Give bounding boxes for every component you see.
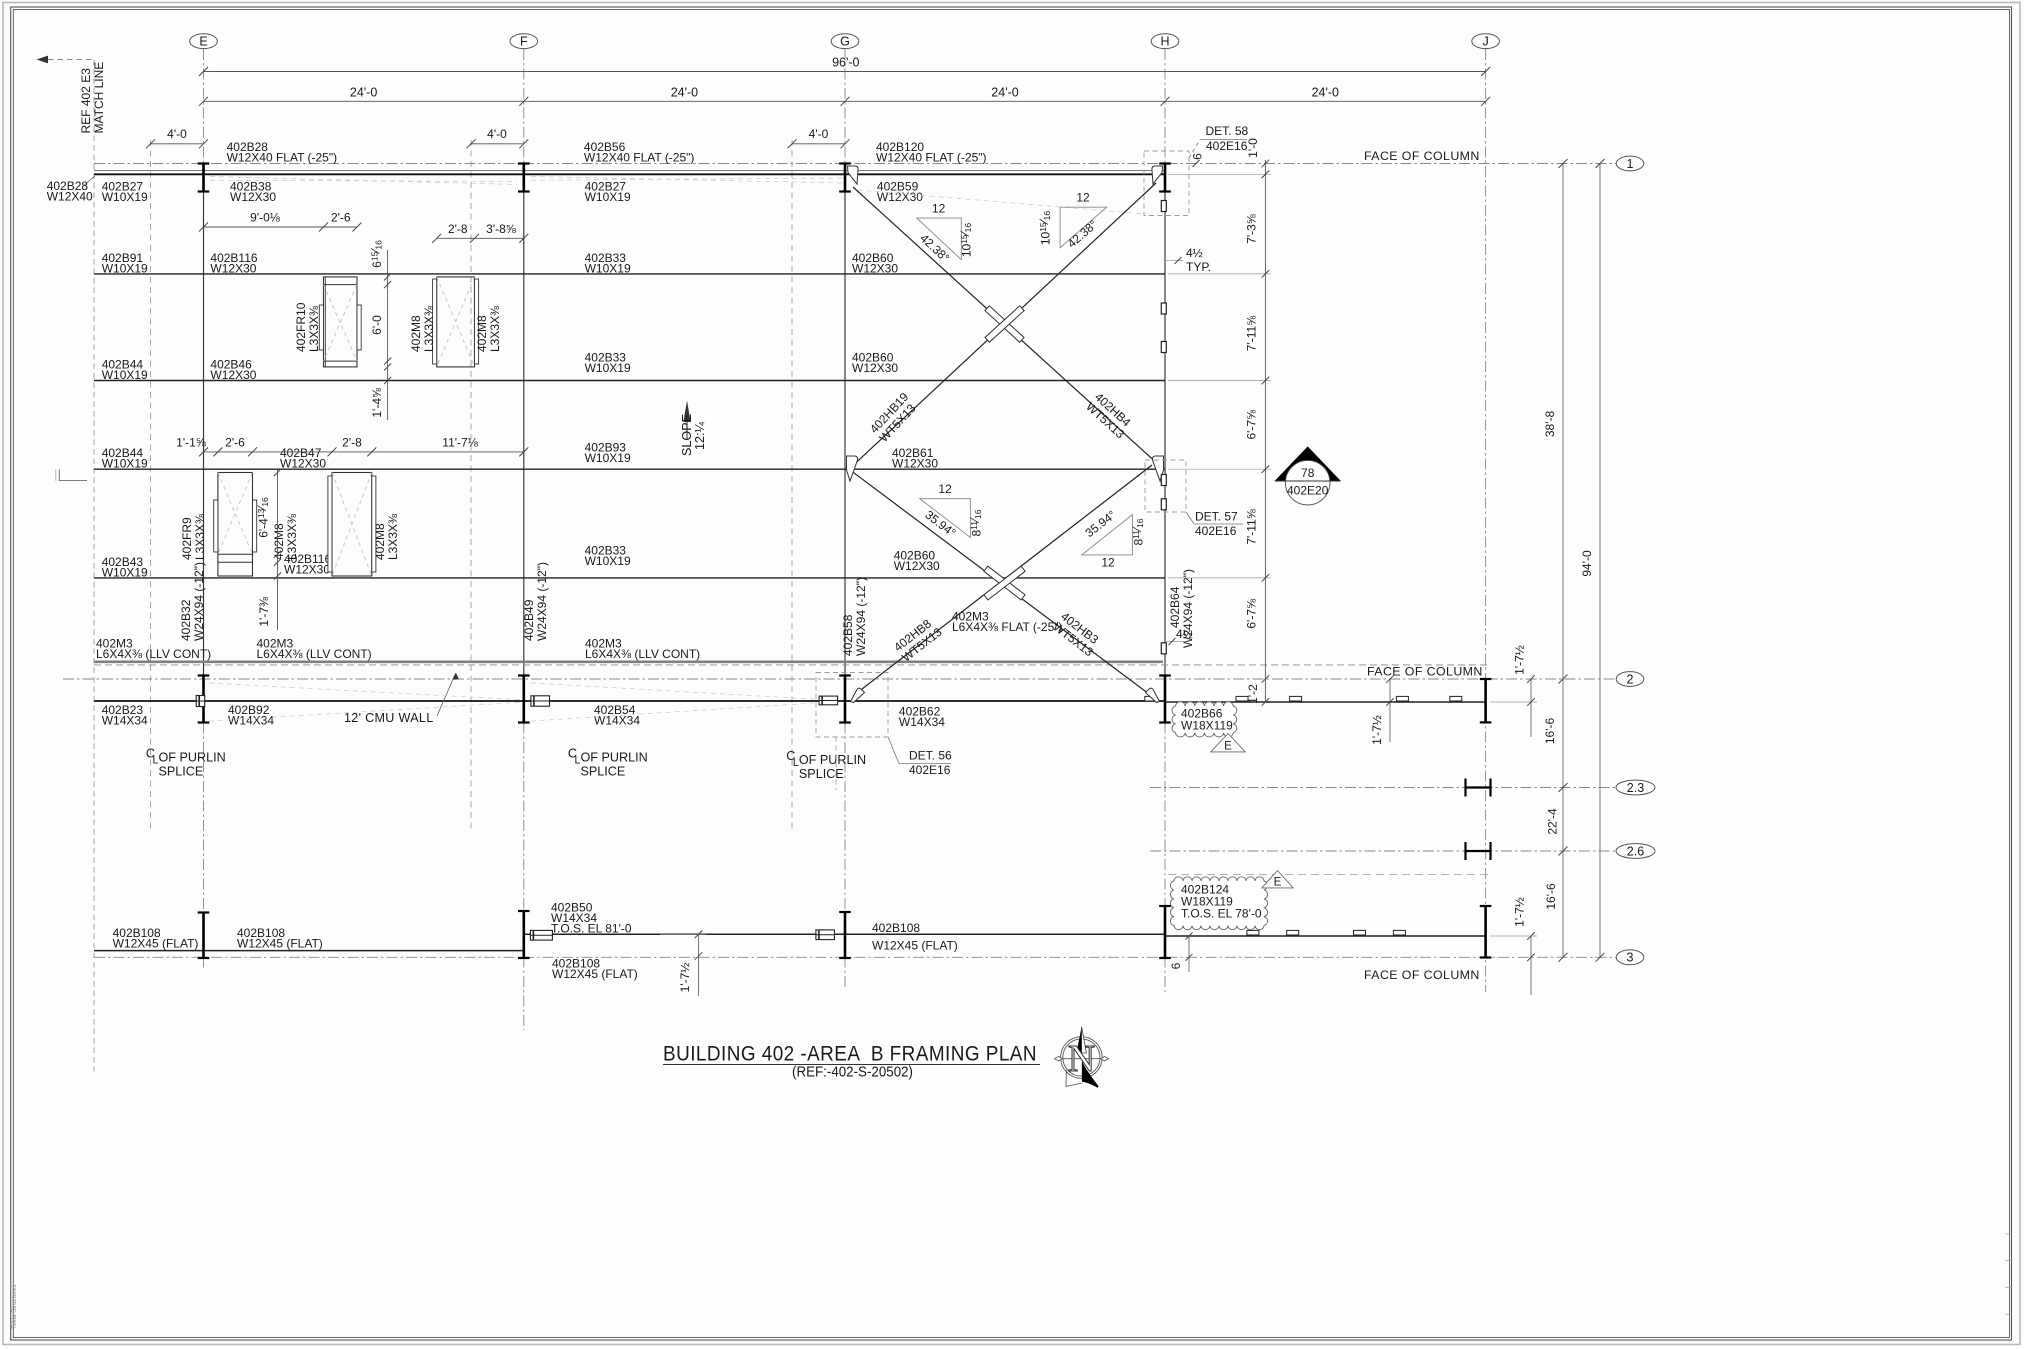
svg-text:W12X30: W12X30: [230, 190, 276, 204]
svg-text:94'-0: 94'-0: [1580, 550, 1594, 577]
gusset at lower X crossing: [984, 566, 1025, 600]
detail box DET 56 at G row2: [816, 673, 888, 738]
erection dashed lines bay F-G row1: [531, 177, 843, 184]
grid bubble G: [831, 34, 859, 49]
beam line 402B44/402B47/402B93/402B61 (row B3): [94, 468, 1165, 470]
frame opening 402M8 pair (upper): [437, 277, 475, 367]
erection dashed V bay E-F row2: [209, 683, 525, 700]
beam 402B108 W12X45 (E-F): [94, 950, 524, 952]
svg-text:2'-8: 2'-8: [342, 436, 362, 450]
splice plate left of G bottom: [816, 930, 835, 940]
svg-text:402E16: 402E16: [1206, 139, 1248, 153]
svg-text:L6X4X⅜ (LLV CONT): L6X4X⅜ (LLV CONT): [96, 647, 211, 661]
svg-text:DET. 57: DET. 57: [1195, 510, 1238, 524]
column at row 2.6 (rotated): [1466, 850, 1491, 852]
brace 402HB8 WT5X13 (H at B3 to G at row2): [853, 465, 1152, 696]
svg-text:3'-8⅝: 3'-8⅝: [486, 222, 517, 236]
grid line G: [844, 49, 846, 164]
svg-text:W24X94 (-12"): W24X94 (-12"): [854, 577, 868, 656]
svg-text:DET. 56: DET. 56: [909, 749, 952, 763]
svg-text:W14X34: W14X34: [899, 715, 945, 729]
svg-text:3: 3: [1627, 951, 1634, 965]
svg-text:FACE OF COLUMN: FACE OF COLUMN: [1364, 149, 1480, 163]
svg-text:BUILDING 402 -AREA B FRAMING: BUILDING 402 -AREA B FRAMING PLAN: [663, 1043, 1037, 1066]
svg-text:L3X3X⅜: L3X3X⅜: [193, 513, 207, 560]
svg-text:L6X4X⅜ (LLV CONT): L6X4X⅜ (LLV CONT): [257, 647, 372, 661]
svg-text:7'-3⅝: 7'-3⅝: [1245, 213, 1259, 244]
grid line H: [1164, 49, 1166, 164]
svg-text:402FR10: 402FR10: [294, 302, 308, 352]
svg-text:F: F: [520, 35, 528, 49]
column at H row 3: [1164, 906, 1167, 958]
svg-text:W10X19: W10X19: [102, 457, 148, 471]
svg-text:1'-7½: 1'-7½: [1513, 645, 1527, 675]
column at J row 2: [1484, 679, 1487, 722]
grid line F: [523, 49, 525, 164]
svg-text:4'-0: 4'-0: [487, 127, 507, 141]
frame opening 402M8 pair (lower): [332, 473, 372, 577]
svg-text:W10X19: W10X19: [102, 261, 148, 275]
svg-text:FACE OF COLUMN: FACE OF COLUMN: [1364, 968, 1480, 982]
column at F row 2: [522, 676, 525, 723]
dimension line 38'-8 / 16'-6 / 22'-4 / 16'-6: [1562, 164, 1564, 958]
svg-text:FACE OF COLUMN: FACE OF COLUMN: [1367, 665, 1483, 679]
svg-text:SLOPE: SLOPE: [680, 414, 694, 456]
svg-text:402B32: 402B32: [179, 599, 193, 641]
beam line 402B91/402B116/402B33/402B60 (row B1): [94, 273, 1165, 275]
north arrow compass: [1061, 1037, 1103, 1079]
label 402HB4 WT5X13: [1083, 390, 1136, 442]
svg-text:402B64: 402B64: [1168, 586, 1182, 628]
svg-text:W12X30: W12X30: [852, 261, 898, 275]
svg-text:4'-0: 4'-0: [167, 127, 187, 141]
svg-text:38'-8: 38'-8: [1543, 411, 1557, 438]
svg-text:2.6: 2.6: [1627, 844, 1644, 858]
svg-text:1'-1⅝: 1'-1⅝: [176, 436, 207, 450]
svg-text:E: E: [199, 35, 207, 49]
column at F row 1: [522, 164, 525, 192]
connector plates on H column: [1161, 201, 1166, 212]
column at G row 2: [844, 676, 847, 723]
beam line 402B44/402B46/402B33/402B60 (row B2): [94, 380, 1165, 382]
svg-text:L6X4X⅜ FLAT (-25"): L6X4X⅜ FLAT (-25"): [952, 620, 1063, 634]
svg-text:G: G: [840, 35, 850, 49]
angle 402M3 L6X4X3/8 continuous (thick line): [94, 660, 1163, 663]
svg-text:L6X4X⅜ (LLV CONT): L6X4X⅜ (LLV CONT): [585, 647, 700, 661]
column at H row 1: [1164, 164, 1167, 192]
detail box DET 58 at H row1: [1144, 151, 1189, 216]
svg-text:W12X40 FLAT (-25"): W12X40 FLAT (-25"): [227, 151, 338, 165]
svg-text:2'-6: 2'-6: [331, 211, 351, 225]
label 402HB3 WT5X13: [1050, 609, 1104, 659]
column at J row 3: [1484, 906, 1487, 958]
erection dashed line bay G-H row1: [858, 190, 1144, 214]
svg-text:H: H: [1160, 35, 1169, 49]
panel dimension line at right of H: [1264, 160, 1266, 702]
svg-text:T.O.S. EL 81'-0: T.O.S. EL 81'-0: [551, 922, 632, 936]
grid bubble J: [1472, 34, 1500, 49]
beam line 402B43/402B116/402B33/402B60 (row B4): [94, 577, 1165, 579]
svg-text:Tekla Structures: Tekla Structures: [11, 1285, 18, 1329]
svg-text:12: 12: [1076, 191, 1090, 205]
svg-text:402M8: 402M8: [475, 315, 489, 352]
svg-text:L3X3X⅜: L3X3X⅜: [488, 305, 502, 352]
svg-text:W12X30: W12X30: [877, 190, 923, 204]
grid line E: [203, 49, 205, 164]
offset dashed line G-4ft: [791, 140, 793, 830]
grid line 2: [63, 678, 1616, 680]
erection dashed V bay F-G row2: [531, 683, 830, 700]
svg-text:W10X19: W10X19: [102, 565, 148, 579]
svg-text:402M8: 402M8: [409, 315, 423, 352]
svg-text:402E16: 402E16: [909, 763, 951, 777]
svg-text:4½: 4½: [1176, 627, 1193, 641]
splice plate right of F bottom: [530, 930, 552, 940]
svg-text:SPLICE: SPLICE: [581, 765, 626, 779]
grid line 2.3: [1150, 787, 1616, 789]
svg-text:OF PURLIN: OF PURLIN: [159, 751, 226, 765]
svg-text:W14X34: W14X34: [594, 713, 640, 727]
column at E row 1: [202, 164, 205, 192]
brace bracket at H row1: [1152, 166, 1163, 184]
beam 402B66 W18X119 (H-J row2): [1165, 701, 1486, 703]
svg-text:2'-6: 2'-6: [225, 436, 245, 450]
svg-text:1'-7⅜: 1'-7⅜: [257, 596, 271, 627]
svg-text:1'-7½: 1'-7½: [1370, 715, 1384, 745]
dimension 4'-0 at G: [792, 143, 845, 145]
slope arrow and label SLOPE 12:1/4: [686, 422, 688, 440]
svg-text:2: 2: [1627, 672, 1634, 686]
402M3 dashed line: [94, 664, 1490, 666]
grid line J: [1485, 49, 1487, 992]
svg-text:L3X3X⅜: L3X3X⅜: [422, 305, 436, 352]
dim 1'-7 1/2 at J row2 inner: [1389, 679, 1391, 742]
svg-text:W24X94 (-12"): W24X94 (-12"): [192, 562, 206, 641]
svg-text:1'-2: 1'-2: [1246, 684, 1260, 704]
svg-text:78: 78: [1301, 466, 1315, 480]
dimension 9'-0 1/8 and 2'-6 (upper frames): [204, 226, 358, 228]
svg-text:402B58: 402B58: [841, 614, 855, 656]
svg-text:W12X45 (FLAT): W12X45 (FLAT): [552, 967, 638, 981]
column at F row 3: [522, 911, 525, 958]
dim 1'-7 1/2 at J row2: [1530, 679, 1532, 737]
grid line 1: [94, 163, 1616, 165]
brace bracket at G row2: [851, 688, 865, 702]
beam 402B28/402B56/402B120 W12X40 FLAT web line: [94, 173, 1165, 175]
svg-text:16'-6: 16'-6: [1543, 718, 1557, 745]
svg-text:W12X30: W12X30: [280, 457, 326, 471]
svg-text:96'-0: 96'-0: [832, 56, 859, 70]
vertical dim 6 15/16 / 6'-0 / 1'-4 5/8: [387, 250, 389, 420]
svg-text:L3X3X⅜: L3X3X⅜: [307, 305, 321, 352]
grid bubble H: [1151, 34, 1179, 49]
svg-text:N: N: [1068, 1038, 1095, 1080]
svg-text:16'-6: 16'-6: [1544, 883, 1558, 910]
svg-text:24'-0: 24'-0: [671, 85, 698, 99]
svg-text:12:¼: 12:¼: [693, 421, 707, 450]
svg-text:4'-0: 4'-0: [809, 127, 829, 141]
erection dashed lines bay E-F row1: [210, 177, 517, 185]
dim 1'-7 1/2 at J row3: [1530, 936, 1532, 995]
svg-text:22'-4: 22'-4: [1546, 808, 1560, 835]
svg-text:4½: 4½: [1186, 246, 1203, 260]
svg-text:W12X45 (FLAT): W12X45 (FLAT): [237, 936, 323, 950]
svg-text:1'-0: 1'-0: [1246, 138, 1260, 158]
svg-text:12: 12: [1101, 556, 1115, 570]
dimension 4'-0 at F: [471, 143, 524, 145]
grid bubble 2: [1616, 672, 1644, 687]
splice plate right of F row2: [531, 696, 550, 706]
svg-text:T.O.S. EL 78'-0: T.O.S. EL 78'-0: [1181, 907, 1262, 921]
slope triangle lower-right (12 : 8 11/16, 35.94): [1082, 515, 1133, 555]
svg-text:W12X45 (FLAT): W12X45 (FLAT): [872, 939, 958, 953]
svg-text:W14X34: W14X34: [102, 713, 148, 727]
svg-text:E: E: [1224, 741, 1232, 753]
match line arrow: [37, 56, 49, 64]
beam 402B50 W14X34 (F-G) TOS EL 81'-0: [524, 933, 1165, 935]
cloud label 402B124 W18X119 TOS EL 78'-0: [1170, 877, 1267, 930]
svg-text:12' CMU WALL: 12' CMU WALL: [344, 711, 434, 725]
svg-text:OF PURLIN: OF PURLIN: [799, 753, 866, 767]
beam 402B28/402B56/402B120 W12X40 FLAT top flange line: [94, 170, 1165, 172]
brace 402HB3 WT5X13 (G at B3 to H at row2): [849, 469, 1149, 694]
svg-text:MATCH LINE: MATCH LINE: [92, 62, 106, 134]
svg-text:W10X19: W10X19: [585, 190, 631, 204]
svg-text:402B108: 402B108: [872, 921, 920, 935]
svg-text:W14X34: W14X34: [228, 713, 274, 727]
svg-text:W12X30: W12X30: [852, 361, 898, 375]
svg-text:W12X30: W12X30: [210, 368, 256, 382]
svg-text:SPLICE: SPLICE: [159, 765, 204, 779]
column at E row 3: [202, 913, 205, 959]
svg-text:6'-7⅝: 6'-7⅝: [1245, 409, 1259, 440]
svg-text:W10X19: W10X19: [585, 451, 631, 465]
column at G row 1: [844, 164, 847, 192]
dimension line 94'-0: [1599, 164, 1601, 958]
svg-text:W10X19: W10X19: [585, 261, 631, 275]
svg-text:6'-0: 6'-0: [370, 315, 384, 335]
dimension row 24'-0 bays: [204, 100, 1486, 102]
match line end mark at left: [59, 479, 87, 481]
column at H row 2: [1164, 676, 1167, 723]
svg-text:W10X19: W10X19: [102, 190, 148, 204]
offset dashed line F-4ft: [470, 140, 472, 830]
grid bubble 1: [1616, 156, 1644, 171]
gusset at upper X crossing: [985, 306, 1024, 342]
svg-text:SPLICE: SPLICE: [799, 767, 844, 781]
grid bubble E: [190, 34, 218, 49]
svg-text:REF 402 E3: REF 402 E3: [79, 68, 93, 134]
svg-text:1'-7½: 1'-7½: [1513, 897, 1527, 927]
dim 1'-7 1/2 bottom middle: [698, 934, 700, 996]
frame opening 402FR9 L3X3X3/8: [218, 473, 253, 577]
svg-text:9'-0⅛: 9'-0⅛: [250, 211, 281, 225]
brace bracket at H row2: [1146, 688, 1160, 702]
svg-text:6: 6: [1191, 153, 1205, 160]
svg-text:W10X19: W10X19: [585, 554, 631, 568]
svg-text:W12X40 FLAT (-25"): W12X40 FLAT (-25"): [876, 151, 987, 165]
svg-text:W18X119: W18X119: [1181, 719, 1233, 733]
svg-text:402M8: 402M8: [373, 523, 387, 560]
svg-text:W12X30: W12X30: [210, 261, 256, 275]
svg-text:W12X40: W12X40: [47, 190, 93, 204]
svg-text:E: E: [1274, 877, 1282, 889]
brace bracket at G row1: [848, 166, 859, 184]
brace bracket at G row B3: [847, 456, 858, 481]
svg-text:W10X19: W10X19: [585, 361, 631, 375]
slope triangle upper-right (12 : 10 15/16, 42.38): [1060, 207, 1107, 248]
svg-text:24'-0: 24'-0: [991, 85, 1018, 99]
offset dashed line E-4ft: [150, 140, 152, 830]
grid bubble 2.6: [1616, 844, 1655, 859]
beam 402B124 W18X119 (H-J): [1165, 935, 1486, 937]
cloud label 402B66 W18X119: [1172, 702, 1237, 737]
svg-text:2'-8: 2'-8: [448, 222, 468, 236]
dim 6 at H bottom: [1188, 936, 1190, 972]
svg-text:1'-7½: 1'-7½: [678, 963, 692, 993]
svg-text:6: 6: [1169, 962, 1183, 969]
brace 402HB4 WT5X13 (G top to H at B3): [853, 187, 1160, 466]
revision flag E (402B66): [1211, 734, 1246, 752]
svg-text:L3X3X⅜: L3X3X⅜: [285, 513, 299, 560]
svg-text:402E16: 402E16: [1195, 524, 1237, 538]
dimension 2'-8 / 3'-8 5/8 (upper M8 frame): [437, 237, 524, 239]
dimension 4'-0 at E: [151, 143, 204, 145]
svg-text:W10X19: W10X19: [102, 368, 148, 382]
column at G row 3: [844, 912, 847, 958]
svg-text:402E20: 402E20: [1287, 484, 1329, 498]
slope triangle upper-left (12 : 10 15/16, 42.38): [917, 218, 962, 260]
svg-text:24'-0: 24'-0: [350, 85, 377, 99]
dimension row above lower frames: [204, 451, 524, 453]
svg-text:DET. 58: DET. 58: [1206, 124, 1249, 138]
svg-text:12: 12: [932, 202, 946, 216]
svg-text:6'-7⅝: 6'-7⅝: [1245, 598, 1259, 629]
svg-text:402M8: 402M8: [272, 523, 286, 560]
dimension 96'-0 overall: [204, 71, 1486, 73]
brace bracket at H row B3: [1152, 456, 1163, 481]
match line (vertical dashed): [93, 60, 95, 1072]
svg-text:W12X30: W12X30: [892, 457, 938, 471]
brace 402HB19 WT5X13 (H top to G at B3): [849, 183, 1156, 469]
svg-text:2.3: 2.3: [1627, 781, 1644, 795]
svg-text:1'-4⅝: 1'-4⅝: [370, 387, 384, 418]
svg-text:OF PURLIN: OF PURLIN: [581, 751, 648, 765]
svg-text:24'-0: 24'-0: [1312, 85, 1339, 99]
detail box DET 57 at H row B3: [1145, 460, 1186, 512]
beam 402B23/402B92/402B54/402B62 W14X34: [94, 700, 1165, 702]
splice plate left of G row2: [819, 696, 838, 705]
svg-text:W12X45 (FLAT): W12X45 (FLAT): [113, 936, 199, 950]
svg-text:W12X30: W12X30: [894, 559, 940, 573]
column at E row 2: [202, 676, 205, 723]
svg-text:402FR9: 402FR9: [180, 517, 194, 560]
grid line 2.6: [1150, 850, 1616, 852]
grid bubble 3: [1616, 950, 1644, 965]
svg-text:11'-7⅛: 11'-7⅛: [442, 436, 478, 450]
revision flag E (402B124): [1262, 871, 1293, 888]
grid bubble 2.3: [1616, 780, 1655, 795]
grid bubble F: [510, 34, 538, 49]
svg-text:J: J: [1482, 35, 1488, 49]
svg-text:7'-11⅝: 7'-11⅝: [1245, 315, 1259, 351]
svg-text:W24X94 (-12"): W24X94 (-12"): [535, 562, 549, 641]
svg-text:W12X40 FLAT (-25"): W12X40 FLAT (-25"): [584, 151, 695, 165]
svg-text:402B49: 402B49: [522, 599, 536, 641]
slope triangle lower-left (12 : 8 11/16, 35.94): [920, 499, 971, 538]
label 402HB8 WT5X13: [891, 614, 945, 664]
frame opening 402FR10 L3X3X3/8: [324, 277, 358, 367]
label 402HB19 WT5X13: [867, 390, 921, 445]
extension lines to panel dim line: [1168, 173, 1271, 175]
vertical dim 6'-4 13/16 / 1'-7 3/8 (lower frames): [277, 470, 279, 630]
splice plate left of E row2: [196, 696, 205, 707]
svg-text:L3X3X⅜: L3X3X⅜: [386, 513, 400, 560]
svg-text:TYP.: TYP.: [1186, 260, 1211, 274]
detail flag 78 / 402E20: [1275, 447, 1341, 482]
grid line 3: [94, 956, 1616, 958]
svg-text:(REF:-402-S-20502): (REF:-402-S-20502): [792, 1065, 913, 1081]
svg-text:1: 1: [1627, 157, 1634, 171]
dashed line H-J above bottom beam: [1168, 874, 1490, 876]
svg-text:7'-11⅝: 7'-11⅝: [1245, 508, 1259, 544]
svg-text:W12X30: W12X30: [284, 562, 330, 576]
column at row 2.3 (rotated): [1466, 786, 1491, 788]
svg-text:12: 12: [938, 482, 952, 496]
